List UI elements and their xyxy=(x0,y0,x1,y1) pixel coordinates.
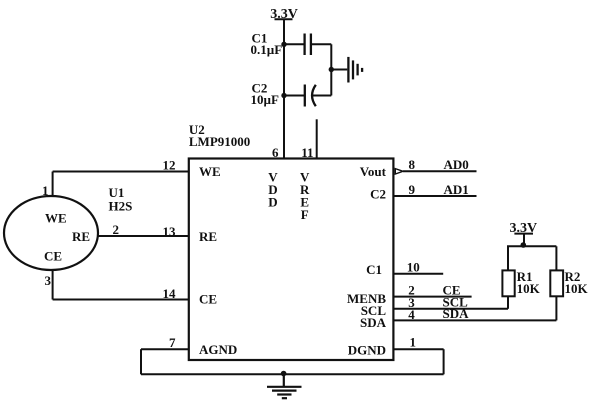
svg-text:7: 7 xyxy=(169,335,176,350)
wire: AD1 net xyxy=(393,195,476,197)
svg-text:13: 13 xyxy=(163,224,177,239)
svg-text:CE: CE xyxy=(44,249,62,264)
svg-text:LMP91000: LMP91000 xyxy=(189,134,250,149)
svg-text:9: 9 xyxy=(409,182,416,197)
wire: RE pin 13 xyxy=(98,235,189,237)
svg-text:RE: RE xyxy=(199,229,217,244)
capacitor C2 10uF (polarized) xyxy=(251,81,316,107)
resistor R1 10K xyxy=(502,269,540,296)
svg-text:10K: 10K xyxy=(565,281,589,296)
svg-text:1: 1 xyxy=(410,334,417,349)
wire: 3.3V rail down to pin 6 VDD xyxy=(283,19,285,158)
wire: C1 right plate to corner xyxy=(311,43,331,45)
wire: AD0 net xyxy=(403,170,477,172)
ground (earth, bottom) xyxy=(267,374,302,398)
svg-text:3: 3 xyxy=(45,273,52,288)
power net 3.3V (pull-ups) xyxy=(510,221,538,236)
wire: bottom ground rail xyxy=(141,373,444,375)
wire: CE net xyxy=(393,296,471,298)
pin 8 output arrow xyxy=(395,169,403,174)
wire: pin 10 stub xyxy=(393,273,443,275)
svg-text:AD0: AD0 xyxy=(444,157,469,172)
wire: pin 11 VREF stub xyxy=(316,119,318,158)
wire: to C2 left plate xyxy=(284,95,305,97)
wire: R2 bottom lead to SDA xyxy=(555,296,557,320)
wire: R1 top lead xyxy=(507,246,509,270)
pin label VDD (stacked) xyxy=(268,170,278,210)
svg-text:WE: WE xyxy=(199,164,221,179)
wire: C2 curved plate to corner xyxy=(313,95,332,97)
svg-text:6: 6 xyxy=(272,145,279,160)
svg-text:12: 12 xyxy=(163,158,176,173)
node: junction dot at ground branch xyxy=(329,67,334,72)
wire: WE pin 12 xyxy=(53,171,189,173)
wire: sensor pin 3 stub xyxy=(52,270,54,300)
node: junction dot at C2 tap xyxy=(281,93,286,98)
svg-text:WE: WE xyxy=(45,211,67,226)
svg-text:2: 2 xyxy=(113,222,120,237)
wire: R2 top lead xyxy=(555,246,557,270)
svg-text:14: 14 xyxy=(163,286,177,301)
node: junction dot at 3.3V rail xyxy=(521,242,527,248)
svg-text:AD1: AD1 xyxy=(444,182,469,197)
svg-text:4: 4 xyxy=(408,307,415,322)
wire: SCL net to R1 xyxy=(393,308,508,310)
wire: CE pin 14 xyxy=(53,299,189,301)
svg-text:8: 8 xyxy=(409,157,416,172)
svg-text:DGND: DGND xyxy=(348,343,386,358)
sensor U1 H2S (electrochemical cell) xyxy=(4,196,98,270)
wire: AGND drop xyxy=(140,349,142,374)
wire: DGND drop xyxy=(443,349,445,374)
svg-text:RE: RE xyxy=(72,229,90,244)
node: junction dot at ground stem xyxy=(281,371,287,377)
svg-text:11: 11 xyxy=(301,145,313,160)
power net 3.3V (top) xyxy=(270,7,298,22)
svg-text:AGND: AGND xyxy=(199,342,237,357)
wire: DGND pin 1 xyxy=(393,348,443,350)
wire: underline of 3.3V xyxy=(275,18,293,20)
wire: to chassis ground xyxy=(331,69,347,71)
pin label VREF (stacked) xyxy=(300,170,310,223)
wire: pull-up rail xyxy=(507,245,556,247)
svg-text:C1: C1 xyxy=(366,262,382,277)
svg-text:10: 10 xyxy=(407,259,420,274)
svg-text:H2S: H2S xyxy=(109,199,133,214)
node: junction dot at C1 tap xyxy=(281,42,286,47)
svg-text:CE: CE xyxy=(199,292,217,307)
wire: AGND pin 7 xyxy=(141,348,189,350)
svg-text:SDA: SDA xyxy=(443,306,470,321)
ref label U1 H2S xyxy=(109,185,133,214)
wire: R1 bottom lead to SCL xyxy=(507,296,509,309)
wire: to C1 left plate xyxy=(284,43,305,45)
wire: SDA net to R2 xyxy=(393,319,556,321)
op-amp IC U2 LMP91000 body xyxy=(189,159,394,361)
svg-text:0.1µF: 0.1µF xyxy=(251,42,283,57)
ref label U2 LMP91000 xyxy=(189,122,250,149)
ground (chassis, top right) xyxy=(348,57,362,83)
svg-text:F: F xyxy=(301,207,309,222)
svg-text:SDA: SDA xyxy=(360,315,387,330)
svg-text:Vout: Vout xyxy=(360,164,387,179)
capacitor C1 0.1uF xyxy=(251,31,311,57)
svg-text:D: D xyxy=(268,195,277,210)
svg-text:C2: C2 xyxy=(370,187,386,202)
wire: right vertical joining C1 and C2 xyxy=(330,44,332,95)
svg-text:10µF: 10µF xyxy=(251,92,279,107)
wire: sensor pin 1 stub xyxy=(52,172,54,197)
svg-text:10K: 10K xyxy=(517,281,541,296)
wire: underline of 3.3V xyxy=(514,233,533,235)
resistor R2 10K xyxy=(550,269,588,296)
wire: 3.3V stem xyxy=(523,234,525,247)
